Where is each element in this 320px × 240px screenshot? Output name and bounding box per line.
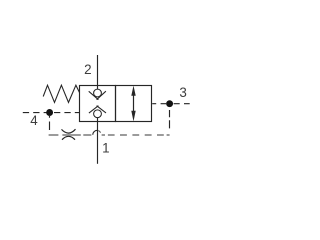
check valve bottom seat: [89, 106, 106, 113]
node junction right: [166, 100, 173, 107]
wire hop over line 1: [93, 130, 98, 135]
check valve top ball: [94, 89, 102, 97]
wire port 4 pilot dashed: [23, 112, 80, 114]
wire left vertical pilot dashed: [49, 115, 51, 130]
check valve bottom ball: [94, 110, 102, 118]
svg-text:4: 4: [30, 113, 38, 128]
valve body left cell: [80, 86, 116, 122]
svg-text:2: 2: [84, 62, 91, 77]
orifice restriction: [62, 129, 76, 140]
wire bottom pilot dashed gray: [49, 134, 170, 136]
spring: [43, 85, 79, 102]
wire port 1 line: [97, 118, 99, 164]
svg-text:3: 3: [179, 85, 186, 100]
valve body right cell: [116, 86, 152, 122]
node junction left: [46, 109, 53, 116]
wire hop right tick: [98, 131, 100, 133]
svg-text:1: 1: [102, 140, 109, 155]
wire right vertical pilot dashed: [169, 110, 171, 128]
flow arrow shaft: [133, 93, 135, 113]
check valve top seat: [89, 91, 106, 100]
wire port 3 dashed: [152, 103, 190, 105]
wire port 2 line: [97, 55, 99, 89]
flow arrow head down: [131, 111, 135, 122]
flow arrow head up: [131, 86, 135, 96]
